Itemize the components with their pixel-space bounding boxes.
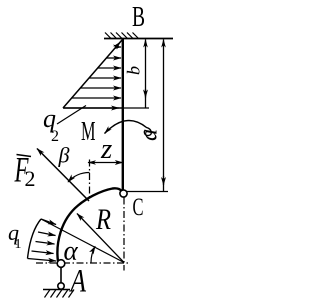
distributed load q1: arrows <box>28 219 57 261</box>
curved bar arc A to C <box>57 188 121 261</box>
svg-text:M: M <box>81 116 96 146</box>
dimension b: extension line <box>124 107 149 109</box>
dash-dot vertical through F2 point <box>89 160 91 200</box>
ground hatching <box>45 290 75 298</box>
ground line <box>43 289 70 291</box>
svg-text:z: z <box>100 133 112 165</box>
fixed support top: wall line <box>104 38 173 40</box>
label F2 with bar <box>17 155 32 157</box>
beam BC (vertical bar) <box>122 39 124 191</box>
dimension b: line with arrows <box>145 40 147 108</box>
dimension a: extension line <box>127 191 168 193</box>
dimension z: line with outward arrows <box>88 162 123 164</box>
hinge C circle <box>120 190 127 197</box>
hinge A circle <box>57 260 65 268</box>
radius R line with arrow <box>77 214 124 263</box>
svg-text:1: 1 <box>15 237 22 252</box>
angle beta arc <box>68 172 90 182</box>
distributed load q2: arrows <box>64 42 121 108</box>
svg-text:C: C <box>133 194 144 221</box>
dimension a: line with arrows <box>163 40 165 192</box>
angle alpha arc <box>91 246 95 262</box>
svg-text:B: B <box>132 2 145 33</box>
distributed load q2: envelope hypotenuse <box>63 40 122 108</box>
distributed load q1: envelope <box>28 219 42 259</box>
fixed support top: hatching <box>105 33 139 39</box>
radius line bounding alpha <box>41 219 124 263</box>
center line horizontal <box>36 262 131 264</box>
svg-text:2: 2 <box>25 166 36 191</box>
distributed load q2: bottom edge <box>63 107 123 109</box>
svg-text:α: α <box>64 236 79 266</box>
svg-text:β: β <box>58 143 70 168</box>
svg-text:R: R <box>95 203 111 236</box>
moment M arc arrow <box>105 121 152 136</box>
support lower circle <box>58 283 64 289</box>
label q2 with leader <box>57 106 86 125</box>
svg-text:b: b <box>124 66 144 75</box>
svg-text:A: A <box>69 264 87 300</box>
center line vertical (C to O) <box>123 198 125 271</box>
support link at A <box>60 267 62 283</box>
force F2 vector <box>37 149 89 202</box>
